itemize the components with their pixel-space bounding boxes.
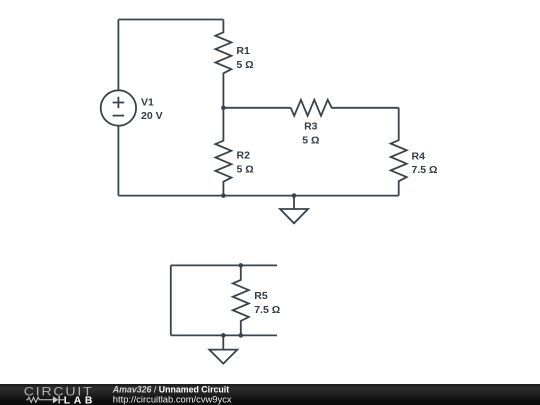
node junction R1-R2-R3 <box>221 106 226 111</box>
svg-text:7.5 Ω: 7.5 Ω <box>412 164 438 176</box>
resistor R3 <box>291 100 399 116</box>
svg-text:5 Ω: 5 Ω <box>237 163 254 175</box>
svg-text:http://circuitlab.com/cvw9ycx: http://circuitlab.com/cvw9ycx <box>113 393 232 404</box>
svg-text:LAB: LAB <box>64 396 96 405</box>
svg-text:5 Ω: 5 Ω <box>302 134 319 146</box>
ground GND1 <box>280 196 308 224</box>
node junction ground1 <box>292 193 297 198</box>
voltage source V1 <box>101 90 136 125</box>
wire V1 bottom lead <box>117 126 119 196</box>
wire V1 top lead <box>117 20 119 91</box>
footer bar <box>0 384 540 405</box>
ground GND2 <box>209 335 237 363</box>
resistor R1 <box>215 20 231 108</box>
svg-text:7.5 Ω: 7.5 Ω <box>254 304 280 316</box>
resistor R4 <box>391 108 407 196</box>
svg-text:5 Ω: 5 Ω <box>236 59 253 71</box>
wire mid rail left <box>223 107 290 109</box>
node junction R5 top <box>239 263 244 268</box>
wire bottom rail <box>118 195 398 197</box>
resistor R5 <box>233 265 249 335</box>
svg-text:V1: V1 <box>141 97 154 109</box>
resistor R2 <box>215 108 231 196</box>
CircuitLab logo diode symbol <box>53 396 60 403</box>
node junction R2-bottom <box>221 193 226 198</box>
wire R5 left branch <box>170 265 172 335</box>
wire top rail <box>118 19 223 21</box>
node junction ground2 <box>221 333 226 338</box>
svg-text:20 V: 20 V <box>141 110 163 122</box>
svg-text:R5: R5 <box>254 290 268 302</box>
wire R5 bottom rail <box>171 334 277 336</box>
svg-text:R2: R2 <box>237 150 251 162</box>
node junction R5 bottom <box>239 333 244 338</box>
svg-text:R4: R4 <box>412 150 426 162</box>
svg-text:R1: R1 <box>236 45 250 57</box>
svg-text:R3: R3 <box>304 121 318 133</box>
CircuitLab logo resistor zigzag and diode <box>26 397 64 402</box>
wire R5 top rail <box>171 264 277 266</box>
